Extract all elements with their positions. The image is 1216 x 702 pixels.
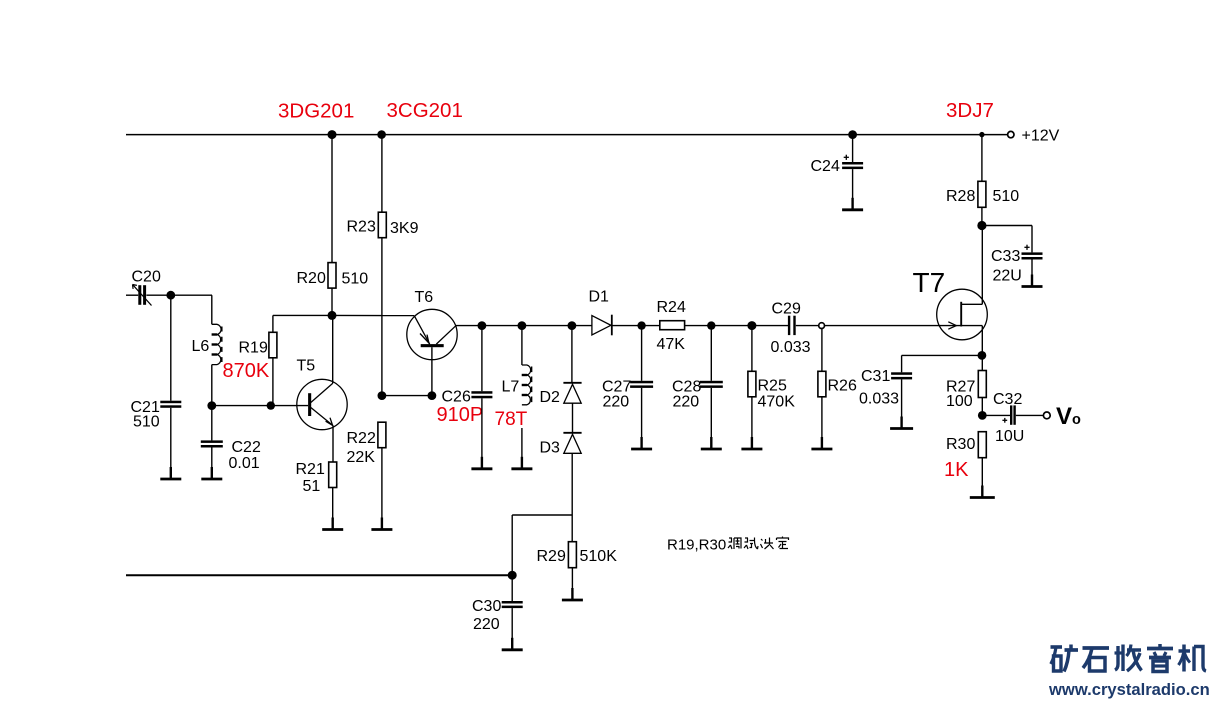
wire L7 to ground: [521, 428, 523, 468]
svg-text:510: 510: [133, 414, 160, 431]
ground C26: [471, 457, 492, 469]
resistor R24: [660, 321, 685, 330]
svg-text:910P: 910P: [437, 404, 484, 426]
ground R22: [371, 518, 392, 530]
svg-text:D3: D3: [540, 440, 561, 457]
svg-text:100: 100: [946, 393, 973, 410]
wire output node to C32: [982, 414, 1010, 416]
ground L7: [511, 457, 532, 469]
svg-text:+12V: +12V: [1022, 128, 1060, 145]
capacitor C32 electrolytic: [1002, 405, 1015, 424]
svg-text:470K: 470K: [758, 394, 796, 411]
label note R19 R30 tuning note: [667, 537, 789, 554]
wire C32 to Vo terminal: [1016, 414, 1044, 416]
wire C29 to T7 gate: [796, 325, 961, 327]
capacitor C27: [630, 381, 653, 388]
label R28 value 510: [946, 188, 1019, 205]
svg-text:220: 220: [473, 616, 500, 633]
node C30 junction: [508, 571, 517, 580]
label R22 value 22K: [347, 430, 376, 466]
wire R26 down: [821, 329, 823, 372]
capacitor C28: [700, 381, 723, 388]
terminal +12V: [1008, 131, 1014, 137]
label R29 value 510K: [537, 548, 618, 565]
ground C31: [890, 417, 913, 429]
svg-text:510: 510: [342, 271, 369, 288]
svg-text:C31: C31: [861, 368, 890, 385]
label watermark crystalradio logo: [1048, 644, 1210, 699]
resistor R28: [978, 181, 986, 207]
wire drain node to T7: [981, 226, 983, 305]
node T6 base junction: [428, 391, 437, 400]
resistor R25: [748, 371, 756, 397]
label C33 value 22U: [991, 248, 1022, 285]
wire C30 to ground: [511, 608, 513, 648]
svg-text:R20: R20: [297, 270, 326, 287]
svg-text:C30: C30: [472, 598, 501, 615]
node R19 bottom junction: [267, 401, 275, 409]
svg-text:C24: C24: [811, 158, 840, 175]
wire D1 to R24: [612, 325, 660, 327]
node rail R20 junction: [328, 130, 337, 139]
node rail R23 junction: [377, 130, 386, 139]
ground C22: [201, 467, 222, 479]
capacitor C26: [471, 391, 492, 398]
svg-text:T7: T7: [913, 267, 946, 298]
diode D1: [592, 315, 612, 336]
svg-text:www.crystalradio.cn: www.crystalradio.cn: [1048, 680, 1210, 699]
node C27 junction: [637, 321, 645, 329]
label C30 value 220: [472, 598, 501, 633]
svg-text:78T: 78T: [495, 409, 528, 430]
wire C28 down: [710, 326, 712, 381]
node rail C24 junction: [848, 130, 857, 139]
resistor R20: [328, 263, 336, 289]
label R27 value 100: [946, 379, 975, 411]
wire R25 down: [751, 326, 753, 372]
wire T6 collector to signal line: [456, 325, 482, 327]
wire input left: [126, 294, 138, 296]
svg-text:0.033: 0.033: [771, 339, 811, 356]
svg-text:C26: C26: [442, 389, 471, 406]
capacitor C33 electrolytic: [1022, 245, 1043, 260]
wire R28 to drain node: [981, 207, 983, 225]
wire D3 down to tee: [571, 453, 573, 515]
resistor R19: [269, 315, 277, 405]
node L7 junction: [518, 321, 527, 330]
wire node C to T6 base node: [382, 395, 432, 397]
svg-text:22U: 22U: [993, 268, 1022, 285]
wire R24 to C29: [685, 325, 788, 327]
svg-text:L7: L7: [502, 379, 520, 396]
resistor R27: [978, 371, 986, 398]
wire source to C31: [902, 354, 982, 356]
capacitor C30: [502, 601, 523, 608]
wire L6 to node B: [211, 365, 213, 406]
wire signal L7 to D2: [522, 325, 572, 327]
svg-text:3K9: 3K9: [390, 220, 419, 237]
wire C21 to ground: [170, 408, 172, 478]
wire C27 to ground: [641, 388, 643, 448]
wire node B to T5 base: [212, 405, 308, 407]
wire R22 to ground: [381, 448, 383, 529]
wire rail to R23: [381, 135, 383, 213]
capacitor C22: [201, 440, 223, 447]
resistor R22: [378, 422, 386, 448]
label C27 value 220: [602, 379, 631, 411]
label C29 value 0.033: [771, 301, 811, 357]
svg-text:3CG201: 3CG201: [387, 99, 463, 122]
wire rail to R20: [331, 135, 333, 263]
svg-text:C29: C29: [772, 301, 801, 318]
node rail R28 junction: [979, 132, 984, 137]
wire R19 top to collector node: [273, 314, 332, 316]
resistor R21: [329, 462, 337, 488]
diode D3: [563, 433, 581, 454]
wire R27 to output node: [981, 398, 983, 416]
wire C20 to node A: [146, 294, 212, 296]
svg-text:C20: C20: [132, 269, 161, 286]
inductor L6: [212, 324, 222, 364]
svg-text:1K: 1K: [944, 459, 969, 481]
inductor L7: [522, 365, 532, 405]
ground C33: [1022, 275, 1043, 287]
wire node A down to C21: [170, 295, 172, 401]
ground C30: [502, 638, 523, 650]
svg-text:D1: D1: [589, 289, 610, 306]
wire R29 to ground: [571, 568, 573, 599]
ground R29: [562, 588, 583, 600]
wire drain node to C33: [982, 225, 1032, 227]
node C28 junction: [707, 321, 715, 329]
svg-text:R25: R25: [758, 378, 787, 395]
svg-text:510K: 510K: [580, 548, 618, 565]
svg-text:D2: D2: [540, 389, 561, 406]
svg-text:T6: T6: [415, 289, 434, 306]
svg-text:R26: R26: [828, 378, 857, 395]
wire L7 down: [521, 326, 523, 365]
svg-text:R19,R30: R19,R30: [667, 537, 726, 554]
wire signal D2 to D1: [572, 325, 592, 327]
wire T5 collector up: [332, 315, 334, 383]
wire T7 source down: [981, 326, 983, 356]
svg-text:10U: 10U: [995, 428, 1024, 445]
ground C28: [701, 437, 722, 449]
node R26 ring junction: [819, 323, 825, 329]
svg-text:C22: C22: [232, 439, 261, 456]
capacitor C20 trimmer: [133, 285, 152, 306]
svg-text:C33: C33: [991, 248, 1020, 265]
label C21 value 510: [131, 399, 160, 431]
wire C26 down: [481, 326, 483, 392]
node A junction: [166, 291, 175, 300]
svg-text:R29: R29: [537, 548, 566, 565]
diode D2: [563, 383, 581, 403]
svg-text:T5: T5: [297, 358, 316, 375]
resistor R29: [568, 542, 576, 568]
label C32 value 10U: [993, 391, 1024, 445]
wire R26 to ground: [821, 397, 823, 448]
wire T6 base down: [431, 347, 433, 395]
svg-text:R22: R22: [347, 430, 376, 447]
transistor T5 NPN: [297, 379, 347, 429]
label C22 value 0.01: [229, 439, 261, 472]
wire source to R27: [981, 355, 983, 370]
wire collector node to T6: [332, 314, 414, 316]
label R24 value 47K: [657, 299, 686, 353]
wire tee to C30 corner: [512, 514, 572, 516]
label C31 value 0.033: [859, 368, 899, 408]
wire R23 to node C: [381, 238, 383, 396]
svg-text:R30: R30: [946, 436, 975, 453]
resistor R26: [818, 371, 826, 397]
wire C31 to ground: [901, 379, 903, 427]
wire node A down to L6: [211, 295, 213, 324]
label R25 value 470K: [758, 378, 796, 411]
wire T5 emitter down to R21: [332, 426, 334, 462]
wire R21 to ground: [332, 488, 334, 529]
svg-text:R21: R21: [296, 461, 325, 478]
wire C24 down: [852, 135, 854, 162]
ground C24: [842, 198, 863, 210]
wire C28 to ground: [710, 388, 712, 448]
ground R21: [322, 518, 343, 530]
wire tee to R29: [571, 515, 573, 542]
wire C27 down: [641, 326, 643, 381]
wire signal C26 to L7: [482, 325, 522, 327]
svg-text:R24: R24: [657, 299, 686, 316]
svg-text:0.033: 0.033: [859, 391, 899, 408]
wire node B down to C22: [211, 406, 213, 441]
svg-text:L6: L6: [192, 338, 210, 355]
wire rail to R28: [981, 135, 983, 182]
svg-text:3DJ7: 3DJ7: [946, 99, 994, 122]
wire D2 to D3: [572, 403, 574, 432]
wire C33 to ground: [1031, 260, 1033, 286]
node B junction: [207, 401, 216, 410]
svg-text:22K: 22K: [347, 449, 376, 466]
label R21 value 51: [296, 461, 325, 495]
capacitor C24 electrolytic: [842, 155, 863, 169]
svg-text:R23: R23: [347, 219, 376, 236]
wire C22 to ground: [211, 448, 213, 479]
svg-text:51: 51: [303, 478, 321, 495]
label R23 value 3K9: [347, 219, 419, 238]
svg-text:510: 510: [993, 188, 1020, 205]
wire +12V top rail: [126, 134, 1008, 136]
label C28 value 220: [672, 379, 701, 411]
node source junction: [978, 351, 987, 360]
ground R26: [811, 437, 832, 449]
resistor R30: [978, 432, 986, 497]
svg-text:870K: 870K: [223, 360, 270, 382]
capacitor C29: [788, 316, 796, 335]
svg-text:0.01: 0.01: [229, 455, 260, 472]
wire C26 to ground: [481, 398, 483, 468]
wire R25 to ground: [751, 397, 753, 448]
resistor R23: [378, 212, 386, 238]
wire R20 to collector node: [331, 288, 333, 315]
capacitor C31: [891, 372, 912, 379]
node C26 junction: [478, 321, 487, 330]
node output junction: [978, 411, 987, 420]
wire C24 to ground: [852, 169, 854, 209]
svg-text:R28: R28: [946, 188, 975, 205]
node C junction R22 R23 T6-base: [378, 391, 387, 400]
ground R30: [970, 486, 995, 498]
wire AGC bottom feedback line: [126, 574, 512, 576]
label R20 value 510: [297, 270, 369, 288]
svg-text:C32: C32: [993, 391, 1022, 408]
node D2 junction: [568, 321, 577, 330]
svg-text:220: 220: [603, 394, 630, 411]
svg-text:3DG201: 3DG201: [278, 100, 354, 123]
node collector T5 junction: [328, 311, 337, 320]
svg-text:R19: R19: [239, 340, 268, 357]
ground R25: [741, 437, 762, 449]
svg-text:220: 220: [673, 394, 700, 411]
node R25 junction: [747, 321, 756, 330]
terminal Vo: [1043, 412, 1050, 419]
ground C27: [631, 437, 652, 449]
ground C21: [160, 467, 181, 479]
wire C30 down: [511, 575, 513, 601]
transistor T6 PNP: [407, 309, 457, 359]
capacitor C21: [160, 401, 181, 408]
wire D2 down: [571, 326, 573, 382]
svg-text:47K: 47K: [657, 336, 686, 353]
transistor T7 JFET 3DJ7: [937, 289, 988, 340]
node drain junction: [977, 221, 986, 230]
